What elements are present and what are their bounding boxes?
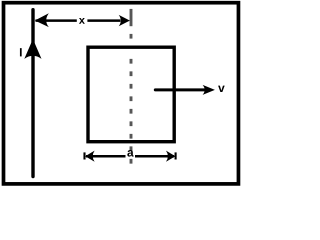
dimension arrow a: right segment [135,155,174,158]
dimension arrow a: left end tick [83,152,85,159]
label I (current) [20,48,22,56]
label x (distance) [79,18,85,24]
current direction arrowhead on wire [24,39,41,59]
wire carrying current I [31,10,34,177]
velocity arrow v: arrowhead [203,85,215,95]
label v (velocity) [218,86,225,92]
dimension arrow x: left arrowhead (points left to wire) [35,13,49,27]
outer border frame of figure [4,3,239,184]
dimension arrow a: left segment [86,155,126,158]
dimension arrow x: right segment [87,19,120,22]
dimension arrow x: right arrowhead (points right to dashed line) [119,15,130,26]
velocity arrow v: shaft [155,88,206,91]
label a (side length) [127,150,133,157]
dimension arrow a: left arrowhead [85,151,94,162]
dimension arrow x: left segment [36,19,77,22]
dashed reference line (initial position of loop side) [130,9,133,164]
dimension arrow a: right end tick [175,152,177,159]
square conducting loop [88,47,174,142]
dimension arrow a: right arrowhead [166,151,175,162]
